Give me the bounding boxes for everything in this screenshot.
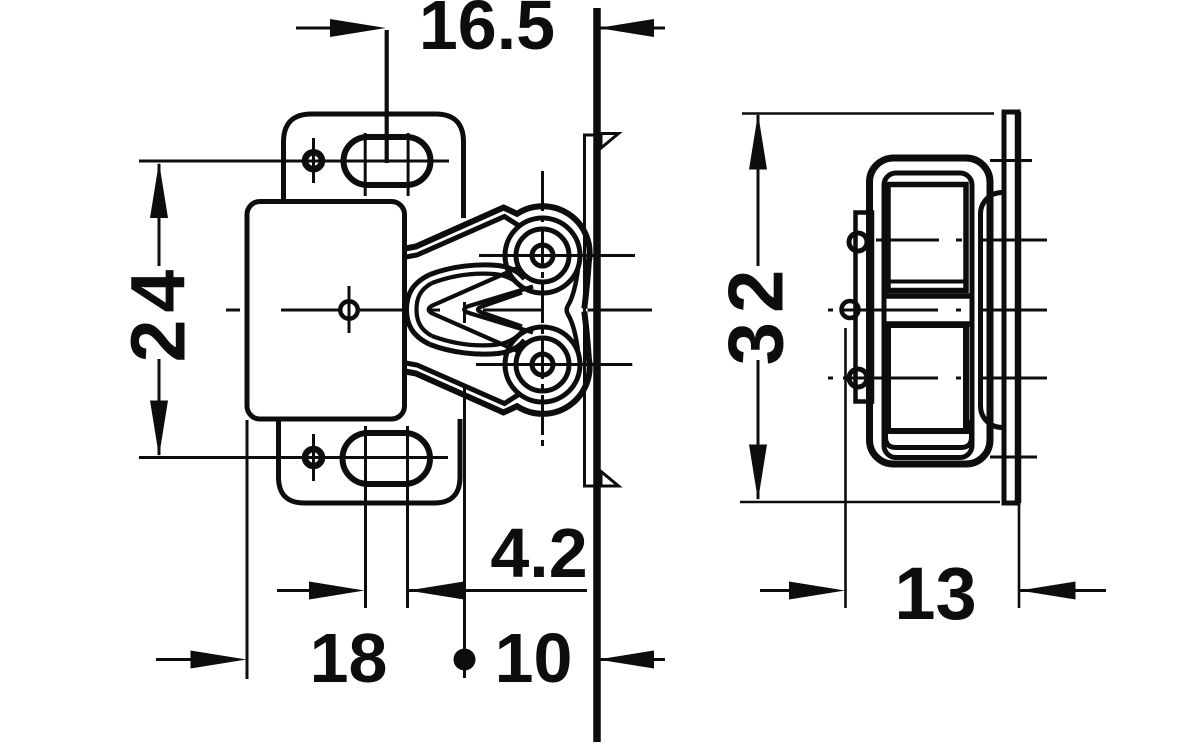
svg-text:18: 18 [310,619,388,697]
svg-text:16.5: 16.5 [419,0,555,64]
svg-text:32: 32 [712,261,800,366]
svg-text:4.2: 4.2 [490,514,587,592]
svg-text:24: 24 [115,263,201,363]
svg-text:10: 10 [495,619,573,697]
svg-text:13: 13 [894,552,976,635]
